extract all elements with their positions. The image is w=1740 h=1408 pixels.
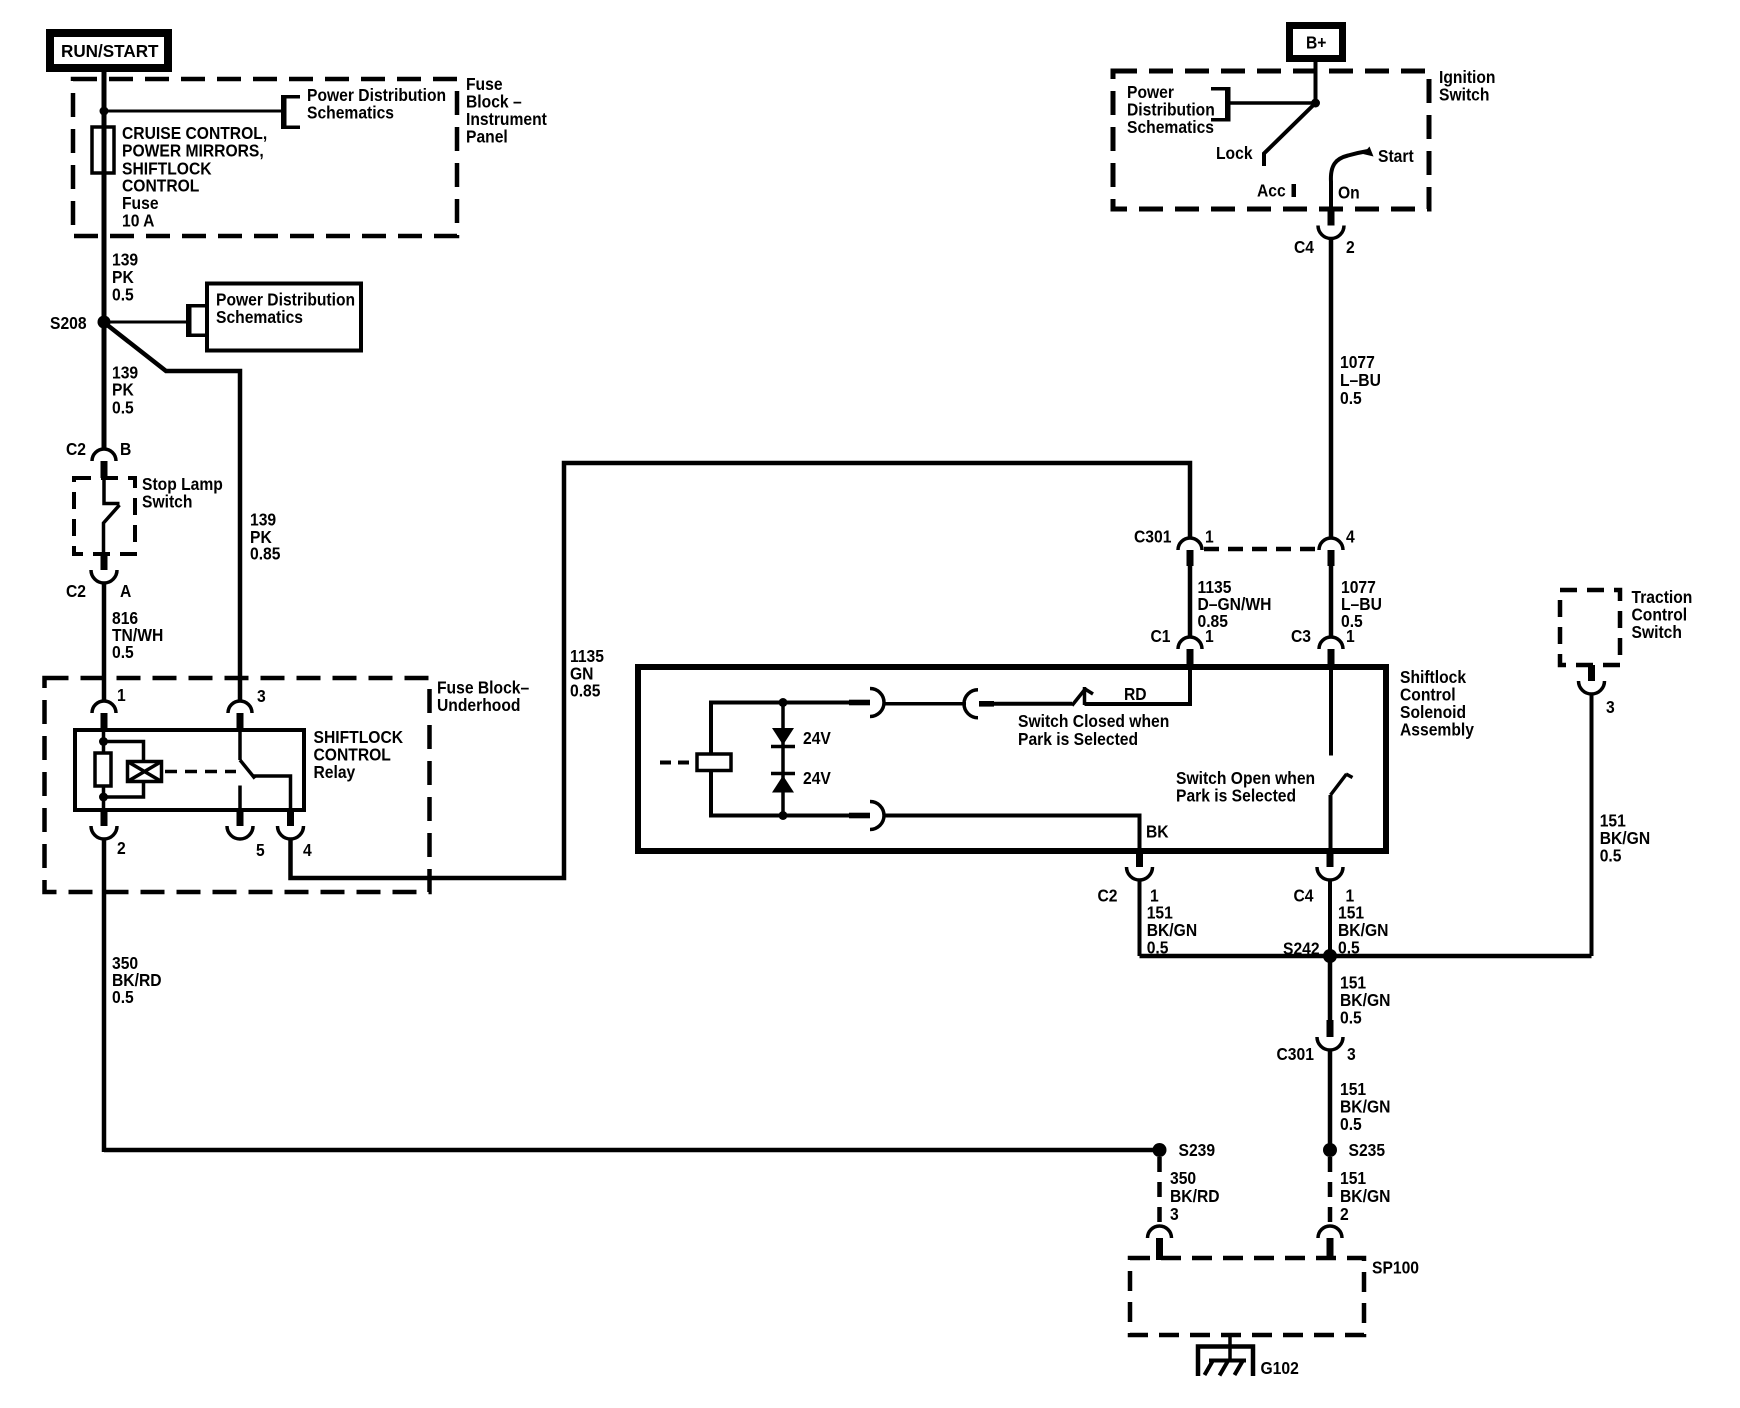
connector relay pin 5 xyxy=(237,810,244,826)
zener diode D1 24V xyxy=(772,728,794,745)
fuse block - instrument panel dashed box xyxy=(73,79,457,236)
svg-text:Switch: Switch xyxy=(1439,85,1489,105)
svg-text:5: 5 xyxy=(256,840,265,860)
dashed connector link C301 xyxy=(1204,547,1319,552)
wire open switch to C4 xyxy=(1329,795,1333,851)
switch blade of stop lamp switch xyxy=(104,478,120,554)
shiftlock control solenoid assembly box xyxy=(638,667,1386,851)
svg-text:3: 3 xyxy=(1347,1044,1356,1064)
wire C2-A down to relay pin 1 xyxy=(102,583,107,701)
svg-text:Lock: Lock xyxy=(1216,143,1253,163)
wire solenoid internal loop xyxy=(711,703,856,816)
node coil top junction xyxy=(99,737,108,746)
node junction at fuse feed xyxy=(100,107,109,116)
coil L1 (box with X) xyxy=(128,762,162,782)
svg-text:0.5: 0.5 xyxy=(1340,1007,1362,1027)
wire S235 to SP100 (dashed) xyxy=(1328,1157,1333,1226)
wire label 151 BK/GN 0.5 (traction) xyxy=(1600,811,1650,866)
label switch open note xyxy=(1176,768,1315,806)
wire bottom path stub xyxy=(849,813,870,819)
dashed actuator link coil to contacts xyxy=(165,770,236,774)
wire label 151 BK/GN 0.5 (below S242) xyxy=(1340,972,1390,1027)
svg-text:C2: C2 xyxy=(66,581,86,601)
dashed actuator into coil xyxy=(660,761,695,765)
svg-text:Switch: Switch xyxy=(142,491,192,511)
solenoid coil (box on loop) xyxy=(697,754,731,771)
label switch closed note xyxy=(1018,711,1169,749)
svg-text:4: 4 xyxy=(1346,526,1355,546)
relay contact to pin 5 xyxy=(238,786,242,811)
splice pack SP100 dashed box xyxy=(1130,1258,1364,1335)
node S235 xyxy=(1323,1143,1337,1157)
wire branch to power distribution schematics (top) xyxy=(104,110,281,113)
svg-text:Panel: Panel xyxy=(466,126,508,146)
svg-text:Schematics: Schematics xyxy=(307,102,394,122)
svg-text:Underhood: Underhood xyxy=(437,695,520,715)
wire relay pin 2 down xyxy=(102,839,107,1152)
connector half (left) top path xyxy=(964,690,978,718)
node B+ battery feed box xyxy=(1290,26,1343,59)
wire connector to park switch xyxy=(979,701,994,707)
wire label 350 BK/RD 0.5 xyxy=(112,953,162,1007)
wire ignition to C301-4 xyxy=(1329,239,1334,539)
off-page bracket (ignition PDS) xyxy=(1211,87,1231,122)
wire park switch to C1 xyxy=(1085,664,1191,704)
svg-text:C3: C3 xyxy=(1291,626,1311,646)
wire label 1077 L-BU 0.5 1 xyxy=(1341,577,1382,631)
wire label 1077 L-BU 0.5 xyxy=(1340,352,1381,408)
svg-text:B: B xyxy=(120,439,131,459)
ground G102 xyxy=(1198,1347,1253,1377)
svg-text:3: 3 xyxy=(1606,697,1615,717)
ignition switch dashed box xyxy=(1113,71,1429,209)
park switch (open) blade xyxy=(1331,774,1353,795)
svg-text:2: 2 xyxy=(117,838,126,858)
svg-text:Park is Selected: Park is Selected xyxy=(1018,729,1138,749)
svg-text:3: 3 xyxy=(257,686,266,706)
label fuse name xyxy=(122,123,267,231)
wire diode branch xyxy=(781,703,785,816)
node RUN/START (hot in run/start feed box) xyxy=(50,33,168,68)
box Power Distribution Schematics (S208) xyxy=(207,284,361,351)
svg-text:3: 3 xyxy=(1170,1204,1179,1224)
svg-text:RD: RD xyxy=(1124,684,1147,704)
svg-text:G102: G102 xyxy=(1261,1358,1299,1378)
relay K: SHIFTLOCK CONTROL Relay box xyxy=(75,730,304,810)
off-page bracket to Power Distribution Schematics (S208) xyxy=(186,304,205,337)
svg-text:0.85: 0.85 xyxy=(250,543,280,563)
wire SP100 to ground xyxy=(1228,1335,1232,1361)
svg-text:C2: C2 xyxy=(66,439,86,459)
svg-text:0.5: 0.5 xyxy=(112,642,134,662)
ignition switch blade (Lock position) xyxy=(1264,105,1314,167)
wire label 151 BK/GN 0.5 (above S235) xyxy=(1340,1079,1390,1134)
svg-text:S242: S242 xyxy=(1283,938,1320,958)
svg-text:2: 2 xyxy=(1340,1204,1349,1224)
svg-text:1: 1 xyxy=(1205,626,1214,646)
svg-text:1: 1 xyxy=(1346,626,1355,646)
connector relay pin 2 xyxy=(101,810,108,826)
svg-text:S235: S235 xyxy=(1349,1140,1386,1160)
svg-text:0.5: 0.5 xyxy=(1600,846,1622,866)
svg-text:1: 1 xyxy=(117,685,126,705)
svg-text:Schematics: Schematics xyxy=(1127,117,1214,137)
wire label 816 TN/WH 0.5 xyxy=(112,608,163,662)
wire label 350 BK/RD 3 xyxy=(1170,1168,1220,1224)
connector C4 pin 2 (ignition) xyxy=(1328,209,1335,226)
svg-text:Switch: Switch xyxy=(1632,622,1682,642)
svg-text:C4: C4 xyxy=(1294,237,1315,257)
wire traction switch to ground bus xyxy=(1590,694,1594,956)
wire label 139 PK 0.85 xyxy=(250,509,280,563)
wire label 1135 D-GN/WH 0.85 xyxy=(1198,577,1272,631)
connector relay pin 4 xyxy=(287,810,294,826)
off-page bracket to Power Distribution Schematics (top) xyxy=(281,95,300,129)
wire S208 to power distribution bracket xyxy=(104,321,186,324)
wire between connector halves xyxy=(883,702,966,706)
ignition Start position curve xyxy=(1331,151,1368,182)
node diode branch top xyxy=(779,698,788,707)
wire label 139 PK 0.5 (upper) xyxy=(112,249,138,304)
svg-text:C2: C2 xyxy=(1098,885,1118,905)
wire label 151 BK/GN 0.5 (left) xyxy=(1147,902,1197,957)
wire coil parallel branch xyxy=(104,742,144,798)
svg-text:C1: C1 xyxy=(1151,626,1171,646)
svg-text:0.85: 0.85 xyxy=(570,681,600,701)
svg-text:Assembly: Assembly xyxy=(1400,720,1475,740)
svg-text:0.5: 0.5 xyxy=(112,987,134,1007)
connector C301 pin 3 xyxy=(1327,1020,1334,1037)
fuse block underhood dashed box xyxy=(45,678,430,892)
svg-text:24V: 24V xyxy=(803,728,832,748)
svg-text:Schematics: Schematics xyxy=(216,307,303,327)
node S242 xyxy=(1323,949,1337,963)
svg-text:1: 1 xyxy=(1205,526,1214,546)
wire C301-4 to C3 xyxy=(1329,566,1334,637)
connector relay pin 1 xyxy=(92,701,116,713)
resistor (relay suppression) xyxy=(95,753,111,786)
svg-text:Acc: Acc xyxy=(1257,180,1286,200)
svg-text:10 A: 10 A xyxy=(122,210,154,230)
traction control switch dashed box xyxy=(1560,590,1620,665)
connector C301 pin 4 xyxy=(1319,538,1343,550)
svg-text:S208: S208 xyxy=(50,313,87,333)
wire label 1135 GN 0.85 xyxy=(570,646,604,701)
connector traction switch pin 3 xyxy=(1588,665,1595,681)
wire bottom path to C2 drop xyxy=(883,816,1140,852)
wire from RUN/START down to fuse xyxy=(102,72,107,449)
svg-text:A: A xyxy=(120,581,131,601)
svg-text:SP100: SP100 xyxy=(1372,1257,1419,1277)
relay switch common from pin 3 xyxy=(238,730,242,760)
relay switch blade xyxy=(240,760,255,779)
wire S208 diagonal branch to relay pin 3 feed xyxy=(106,324,240,701)
node coil bottom junction xyxy=(99,793,108,802)
wire relay pin1 into coil xyxy=(102,730,106,810)
wire S242 down to C301-3 xyxy=(1328,956,1333,1021)
connector SP100 right xyxy=(1318,1226,1342,1238)
svg-text:Relay: Relay xyxy=(314,762,356,782)
wire On contact down xyxy=(1329,181,1333,210)
svg-text:Park is Selected: Park is Selected xyxy=(1176,785,1296,805)
connector C301 pin 1 xyxy=(1178,538,1202,550)
connector half (right) top path xyxy=(870,689,884,717)
svg-text:0.5: 0.5 xyxy=(1340,1114,1362,1134)
zener diode D2 24V xyxy=(771,772,795,776)
wire C301-1 to C1 xyxy=(1188,566,1193,637)
wire label 139 PK 0.5 (below S208) xyxy=(112,362,138,417)
connector C1 pin 1 xyxy=(1178,637,1202,649)
node S239 xyxy=(1153,1143,1167,1157)
svg-text:0.5: 0.5 xyxy=(112,284,134,304)
svg-text:C301: C301 xyxy=(1277,1044,1314,1064)
wire label 151 BK/GN 2 xyxy=(1340,1168,1390,1224)
svg-text:S239: S239 xyxy=(1179,1140,1216,1160)
label Fuse Block - Instrument Panel xyxy=(466,74,547,147)
connector C2 pin 1 (solenoid bottom) xyxy=(1136,851,1143,867)
wire top path stub xyxy=(849,700,870,706)
connector half bottom path xyxy=(870,802,884,830)
wire S239 to SP100 (dashed) xyxy=(1157,1157,1162,1226)
svg-text:C4: C4 xyxy=(1294,885,1315,905)
connector C2 pin B (stop lamp switch) xyxy=(92,449,116,461)
wire left ground run to S239 xyxy=(104,1148,1160,1153)
park switch (closed) blade xyxy=(1072,688,1086,706)
fuse F: CRUISE CONTROL 10A xyxy=(92,127,114,173)
label Power Distribution Schematics (ignition) xyxy=(1127,82,1215,137)
svg-text:B+: B+ xyxy=(1306,32,1327,52)
wire bracket to B+ node xyxy=(1230,101,1316,105)
wire ground bus S242 xyxy=(1140,954,1592,959)
wire C2 drop to ground bus xyxy=(1138,880,1142,956)
connector relay pin 3 xyxy=(228,701,252,713)
wire C3 into park switch (open) xyxy=(1329,664,1333,756)
svg-text:On: On xyxy=(1338,182,1360,202)
svg-text:2: 2 xyxy=(1346,237,1355,257)
wire B+ into ignition switch xyxy=(1314,62,1318,103)
connector C2 pin A xyxy=(101,554,108,570)
svg-text:24V: 24V xyxy=(803,768,832,788)
connector C4 pin 1 (solenoid bottom) xyxy=(1327,851,1334,867)
svg-text:RUN/START: RUN/START xyxy=(61,41,159,62)
node ignition feed junction xyxy=(1311,99,1320,108)
wire relay pin 4 out to solenoid feed xyxy=(291,463,1191,878)
svg-text:BK: BK xyxy=(1146,821,1169,841)
node S208 xyxy=(98,316,111,329)
wire C4 drop to S242 xyxy=(1328,880,1332,956)
wire C301-3 to S235 xyxy=(1328,1050,1333,1152)
svg-text:Start: Start xyxy=(1378,146,1414,166)
stop lamp switch dashed box xyxy=(74,478,135,554)
svg-text:0.5: 0.5 xyxy=(112,397,134,417)
svg-text:0.5: 0.5 xyxy=(1340,388,1362,408)
connector SP100 left xyxy=(1148,1226,1172,1238)
wire blade to pin 4 drop xyxy=(253,776,291,810)
svg-text:4: 4 xyxy=(303,840,312,860)
svg-text:C301: C301 xyxy=(1134,526,1171,546)
connector C3 pin 1 xyxy=(1319,637,1343,649)
wire label 151 BK/GN 0.5 (right) xyxy=(1338,902,1388,957)
node diode branch bottom xyxy=(779,811,788,820)
